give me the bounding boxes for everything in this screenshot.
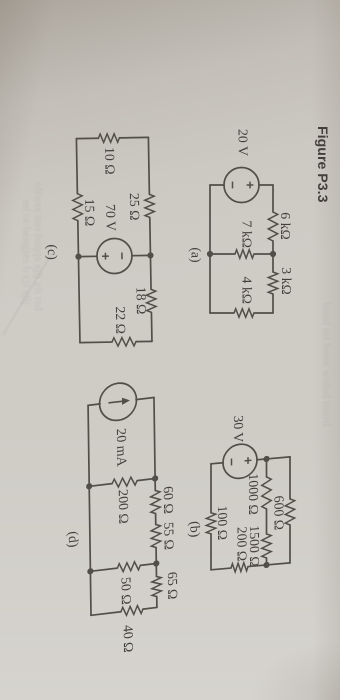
current source 20 mA (circuit d) [99,381,136,422]
wire bottom (d) [88,405,91,615]
svg-text:(a): (a) [188,247,204,262]
wire source top (d) [136,397,154,399]
svg-text:1000 Ω: 1000 Ω [246,473,261,516]
resistor 50 Ohm [140,563,156,565]
node top-mid (a) [270,251,276,257]
svg-text:600 Ω: 600 Ω [272,495,287,531]
wire source bottom (d) [88,404,100,405]
wire bottom-right (b) [210,534,212,570]
wire left-top (c) [119,136,148,139]
svg-text:70 V: 70 V [103,204,118,231]
svg-text:65 Ω: 65 Ω [165,571,180,600]
svg-text:200 Ω: 200 Ω [116,488,131,524]
resistor 7 kOhm [254,253,273,255]
wire top-left (a) [272,185,274,212]
wire source top (b) [257,458,267,461]
svg-text:Figure P3.3: Figure P3.3 [314,126,330,203]
wire bottom-right (c) [78,257,80,343]
wire main left (b) [266,459,268,477]
arrow of current source [109,401,124,403]
svg-text:18 Ω: 18 Ω [133,287,148,315]
wire right-bottom (a) [210,312,234,314]
svg-text:3 kΩ: 3 kΩ [279,267,294,295]
resistor 10 Ohm [98,134,119,143]
wire top 3 (d) [155,547,157,576]
wire right-bottom (c) [80,341,112,344]
svg-text:4 kΩ: 4 kΩ [240,277,255,305]
svg-text:200 Ω: 200 Ω [235,526,250,562]
svg-text:60 Ω: 60 Ω [161,485,176,514]
svg-text:6 kΩ: 6 kΩ [278,212,293,240]
wire upper branch left (b) [267,457,291,459]
node top (c) [147,252,153,258]
wire source bottom (c) [78,255,96,257]
resistor 200 Ohm [248,565,267,567]
wire source bottom (a) [210,184,224,186]
crease line (faint) [3,253,52,335]
wire top-right (c) [150,312,153,341]
svg-text:25 Ω: 25 Ω [127,193,142,221]
wire top-right (a) [272,294,274,313]
resistor 6 kOhm [268,212,277,241]
node bottom-1 (d) [86,483,92,490]
resistor 600 Ohm [285,498,294,525]
resistor 55 Ohm [151,524,161,548]
wire top 1 (d) [154,397,155,490]
svg-text:30 V: 30 V [231,415,246,443]
wire upper branch right (b) [289,525,291,563]
svg-text:22 Ω: 22 Ω [113,306,128,334]
resistor 4 kOhm [234,309,254,317]
wire top-mid2 (c) [149,255,152,289]
wire source bottom (b) [211,463,223,464]
svg-text:7 kΩ: 7 kΩ [240,221,255,249]
wire bottom-mid (c) [77,221,80,257]
wire bottom (a) [209,185,211,313]
wire main mid (b) [266,509,268,534]
svg-text:10 Ω: 10 Ω [102,147,117,175]
voltage source 70 V (circuit c) [97,238,133,274]
svg-text:20 V: 20 V [236,129,251,156]
svg-text:(b): (b) [187,521,203,538]
wire bottom-left (b) [210,464,212,513]
resistor 40 Ohm [143,607,157,609]
svg-text:20 mA: 20 mA [114,428,129,468]
wire bottom-left (c) [75,139,78,194]
svg-text:lsnul sri bsmt wolsd tiuoil: lsnul sri bsmt wolsd tiuoil [320,302,334,427]
svg-text:100 Ω: 100 Ω [215,505,230,541]
node bottom-2 (d) [87,568,93,575]
node top-right (b) [263,562,269,569]
wire right-top (c) [136,340,152,342]
wire top-left (c) [147,137,150,194]
resistor 15 Ohm [73,194,83,221]
wire top 4 (d) [156,596,158,607]
resistor 1000 Ohm [262,477,271,510]
voltage source 20 V (circuit a) [224,168,259,203]
svg-text:55 Ω: 55 Ω [161,521,176,550]
svg-text:40 Ω: 40 Ω [121,624,136,653]
node bottom-mid (a) [207,251,213,257]
node top-2 (d) [153,560,159,567]
wire main right (b) [266,558,268,565]
resistor 25 Ohm [145,194,155,217]
wire top-mid (c) [149,217,152,255]
resistor 60 Ohm [151,490,161,514]
wire source top (c) [132,254,150,256]
wire left-bottom (c) [76,137,98,139]
voltage source 30 V (circuit b) [223,443,257,480]
resistor 1500 Ohm [262,534,271,559]
resistor 3 kOhm [268,272,277,294]
resistor 65 Ohm [152,576,162,597]
svg-text:(d): (d) [65,530,81,548]
resistor 18 Ohm [146,289,156,312]
resistor 22 Ohm [112,337,136,346]
node bottom (c) [75,253,81,259]
resistor 100 Ohm [206,512,215,534]
wire top-mid (a) [272,241,274,272]
node top-left (b) [263,456,269,463]
node top-1 (d) [152,475,158,482]
svg-text:50 Ω: 50 Ω [119,576,134,605]
svg-text:ed ot bengjes b cji sjlj: ed ot bengjes b cji sjlj [20,200,34,305]
wire source top (a) [259,184,273,186]
svg-text:15 Ω: 15 Ω [82,199,97,227]
resistor 200 Ohm (d) [137,478,155,480]
wire right-top (a) [254,312,273,314]
wire top 2 (d) [155,513,157,524]
